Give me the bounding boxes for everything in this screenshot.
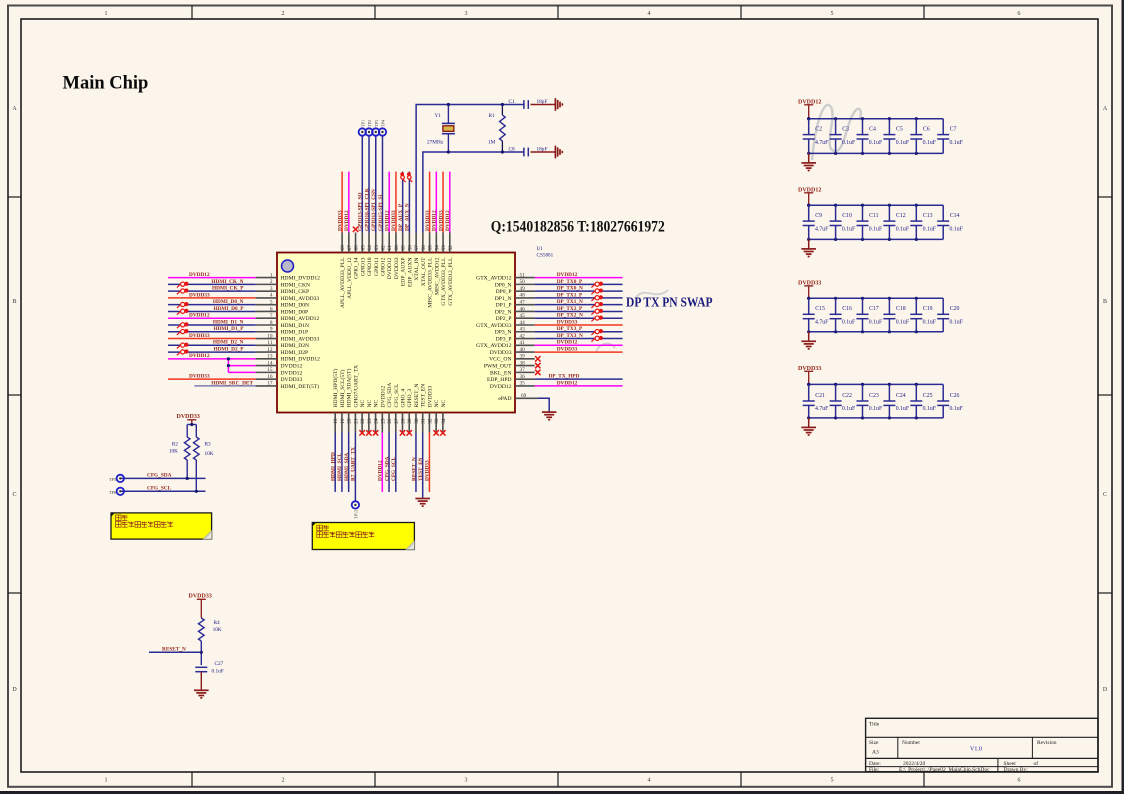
svg-text:HDMI_SDA(5T): HDMI_SDA(5T) xyxy=(346,369,353,408)
svg-text:A: A xyxy=(1103,106,1108,112)
ground C8 xyxy=(552,146,562,159)
svg-text:48: 48 xyxy=(520,293,526,299)
svg-text:R7_UART_TX: R7_UART_TX xyxy=(351,447,357,481)
svg-text:58: 58 xyxy=(407,245,413,251)
svg-text:MISC_AVDD12: MISC_AVDD12 xyxy=(434,257,440,295)
svg-text:DP TX PN SWAP: DP TX PN SWAP xyxy=(626,296,713,311)
svg-text:HDMI_D0P: HDMI_D0P xyxy=(281,309,309,315)
capacitor C3 xyxy=(830,119,856,154)
capacitor C10 xyxy=(830,205,856,239)
svg-text:31: 31 xyxy=(421,418,427,424)
svg-text:40: 40 xyxy=(520,347,526,353)
pin 62 GPIO12 xyxy=(380,233,386,277)
svg-text:HDMI_D1_P: HDMI_D1_P xyxy=(213,326,244,332)
svg-text:DVDD33: DVDD33 xyxy=(394,257,400,279)
svg-text:9: 9 xyxy=(270,327,273,333)
op-chip U1 CS5801 body xyxy=(277,253,515,413)
svg-text:17: 17 xyxy=(267,381,273,387)
no-connect pin 29 xyxy=(407,430,412,435)
diff pair marker xyxy=(177,289,188,295)
svg-text:C7: C7 xyxy=(950,126,957,132)
wire HDMI_D0_N xyxy=(168,299,256,305)
svg-text:RESET_N: RESET_N xyxy=(414,384,420,408)
svg-text:APLL_VDDU_12: APLL_VDDU_12 xyxy=(347,257,353,299)
svg-text:C21: C21 xyxy=(815,393,825,399)
svg-text:6: 6 xyxy=(1018,11,1021,17)
svg-text:R1: R1 xyxy=(489,113,496,119)
svg-text:EDP_HPD: EDP_HPD xyxy=(487,377,512,383)
svg-text:GPIO10: GPIO10 xyxy=(367,257,373,276)
svg-text:0.1uF: 0.1uF xyxy=(896,320,910,326)
wire CFG_SCL xyxy=(120,486,205,493)
svg-text:0.1uF: 0.1uF xyxy=(869,226,883,232)
svg-text:52: 52 xyxy=(448,245,454,251)
node XTAL_IN top xyxy=(447,103,450,106)
capacitor C24 xyxy=(883,384,909,418)
svg-text:26: 26 xyxy=(387,418,393,424)
wire DVDD33 cap bank rails xyxy=(807,383,943,420)
svg-text:DP_TX3_N: DP_TX3_N xyxy=(557,333,583,339)
capacitor C27 xyxy=(195,661,223,675)
svg-text:1: 1 xyxy=(105,778,108,784)
node XTAL_OUT bottom xyxy=(447,150,450,153)
power port DVDD12 cap bank xyxy=(798,188,821,206)
capacitor C16 xyxy=(830,298,856,332)
watermark swirl small xyxy=(636,290,668,297)
svg-text:C15: C15 xyxy=(815,306,825,312)
svg-text:57: 57 xyxy=(414,245,420,251)
svg-text:GPIO15-SPI_SI: GPIO15-SPI_SI xyxy=(378,195,384,232)
svg-text:55: 55 xyxy=(428,245,434,251)
svg-text:HDMI_AVDD33: HDMI_AVDD33 xyxy=(281,296,320,302)
svg-text:C19: C19 xyxy=(923,306,933,312)
capacitor C12 xyxy=(883,205,909,239)
svg-text:43: 43 xyxy=(520,327,526,333)
svg-text:DP_TX3_P: DP_TX3_P xyxy=(557,326,583,332)
svg-text:Title: Title xyxy=(869,722,880,728)
diff pair marker xyxy=(177,309,188,315)
svg-text:HDMI_CKP: HDMI_CKP xyxy=(281,289,310,295)
capacitor C26 xyxy=(937,384,963,418)
svg-text:D: D xyxy=(1103,687,1108,693)
svg-text:24: 24 xyxy=(374,418,380,424)
pin 3 HDMI_CKP xyxy=(256,286,310,295)
svg-text:4.7uF: 4.7uF xyxy=(815,140,829,146)
wire XTAL_OUT xyxy=(423,152,524,233)
svg-text:DVDD33: DVDD33 xyxy=(557,319,578,325)
svg-text:DVDD33: DVDD33 xyxy=(189,594,212,600)
svg-text:DP_AUX_P: DP_AUX_P xyxy=(398,203,404,231)
pin 28 GPIO_4 xyxy=(401,389,407,433)
svg-text:CFG_SCL: CFG_SCL xyxy=(391,456,397,481)
svg-text:GPIO12: GPIO12 xyxy=(380,257,386,276)
pin 64 GPIO10 xyxy=(367,233,373,277)
no-connect pin 22 xyxy=(359,430,364,435)
diff pair marker xyxy=(591,309,602,315)
svg-text:TP4: TP4 xyxy=(380,119,385,127)
svg-text:RESET_N: RESET_N xyxy=(162,647,186,653)
svg-text:0.1uF: 0.1uF xyxy=(950,406,964,412)
svg-text:20: 20 xyxy=(347,418,353,424)
svg-text:DVDD12: DVDD12 xyxy=(432,210,438,231)
svg-text:33: 33 xyxy=(434,418,440,424)
svg-text:15: 15 xyxy=(267,367,273,373)
wire DVDD12 pin 25 xyxy=(378,433,384,492)
pin 67 APLL_VDDU_12 xyxy=(347,233,353,299)
pin 57 XTAL_IN xyxy=(414,233,420,281)
svg-text:XTAL_OUT: XTAL_OUT xyxy=(421,257,427,286)
capacitor C5 xyxy=(883,119,909,154)
svg-text:45: 45 xyxy=(520,313,526,319)
svg-text:RESET_N: RESET_N xyxy=(411,457,417,481)
pin 45 DP2_P xyxy=(496,313,535,322)
wire pullup top tie xyxy=(187,423,196,437)
svg-text:30: 30 xyxy=(414,418,420,424)
svg-text:R3: R3 xyxy=(205,442,212,448)
wire R4 to node xyxy=(200,641,202,665)
test point TP15 xyxy=(352,501,359,519)
capacitor C6 xyxy=(910,119,936,154)
svg-text:C1: C1 xyxy=(509,99,516,105)
svg-text:DVDD33: DVDD33 xyxy=(177,414,200,420)
pin 56 XTAL_OUT xyxy=(421,233,427,287)
svg-text:C11: C11 xyxy=(869,213,879,219)
svg-text:Size: Size xyxy=(869,740,879,746)
svg-text:10: 10 xyxy=(267,333,273,339)
pin 6 HDMI_D0P xyxy=(256,306,309,315)
wire HDMI_CK_P xyxy=(168,286,256,292)
svg-text:R4: R4 xyxy=(214,620,221,626)
svg-text:21: 21 xyxy=(353,418,359,424)
svg-text:GTX_AVDD33_PLL: GTX_AVDD33_PLL xyxy=(441,257,447,306)
capacitor C4 xyxy=(857,119,883,154)
svg-text:HDMI_CKN: HDMI_CKN xyxy=(281,282,311,288)
wire RESET_N pin 30 xyxy=(411,433,417,492)
svg-text:62: 62 xyxy=(380,245,386,251)
resistor R1 xyxy=(488,105,505,153)
pin 36 EDP_HPD xyxy=(487,374,535,383)
svg-text:APLL_AVDD33_PLL: APLL_AVDD33_PLL xyxy=(340,257,346,308)
pin 42 DP3_P xyxy=(496,333,535,342)
svg-text:C16: C16 xyxy=(842,306,852,312)
svg-text:7: 7 xyxy=(270,313,273,319)
pin 11 HDMI_D2N xyxy=(256,340,309,349)
svg-text:DVDD12: DVDD12 xyxy=(378,460,384,481)
test point TP5 xyxy=(109,475,124,482)
no-connect pin 38 xyxy=(535,363,540,368)
wire DVDD33 pin 44 xyxy=(535,319,623,325)
wire DVDD12 cap bank rails xyxy=(807,117,943,155)
svg-text:39: 39 xyxy=(520,354,526,360)
svg-text:DP_TX0_N: DP_TX0_N xyxy=(557,286,583,292)
svg-text:HDMI_SDA: HDMI_SDA xyxy=(344,453,350,481)
svg-text:DVDD12: DVDD12 xyxy=(189,272,210,278)
svg-text:3: 3 xyxy=(270,286,273,292)
wire CFG_SDA pin 26 xyxy=(384,433,390,492)
svg-text:DVDD33: DVDD33 xyxy=(427,386,433,408)
svg-text:63: 63 xyxy=(374,245,380,251)
svg-text:27: 27 xyxy=(394,418,400,424)
diff pair marker xyxy=(177,302,188,308)
svg-text:51: 51 xyxy=(520,272,526,278)
pin 4 HDMI_AVDD33 xyxy=(256,293,320,302)
svg-text:67: 67 xyxy=(347,245,353,251)
wire DVDD12 pin 52 xyxy=(445,172,451,233)
svg-text:59: 59 xyxy=(401,245,407,251)
pin 15 DVDD12 xyxy=(256,367,303,376)
pin 48 DP1_N xyxy=(495,293,535,302)
svg-text:35: 35 xyxy=(520,381,526,387)
svg-text:C14: C14 xyxy=(950,213,960,219)
wire TEST_EN xyxy=(418,433,424,499)
svg-text:16: 16 xyxy=(267,374,273,380)
svg-text:64: 64 xyxy=(367,245,373,251)
pin 35 DVDD12 xyxy=(490,381,535,390)
svg-text:HDMI_D1P: HDMI_D1P xyxy=(281,330,309,336)
wire HDMI_D0_P xyxy=(168,306,256,312)
wire DP_TX1_N pin 47 xyxy=(535,299,623,305)
svg-text:DP_TX0_P: DP_TX0_P xyxy=(557,279,583,285)
wire DP_TX2_P pin 46 xyxy=(535,306,623,312)
ground cap bank xyxy=(801,341,816,349)
svg-text:Sheet: Sheet xyxy=(1004,761,1017,767)
pin 47 DP1_P xyxy=(496,299,535,308)
screen edge bottom xyxy=(0,791,1124,794)
wire HDMI_SRC_DET xyxy=(194,380,255,386)
capacitor C17 xyxy=(857,298,883,332)
wire DVDD33 cap bank rails xyxy=(807,297,943,334)
svg-text:NC: NC xyxy=(441,399,447,407)
pin 31 TEST_EN xyxy=(421,384,427,433)
svg-text:DVDD12: DVDD12 xyxy=(380,386,386,408)
svg-text:DVDD12: DVDD12 xyxy=(387,257,393,279)
svg-text:HDMI_D2_P: HDMI_D2_P xyxy=(213,346,244,352)
wire ground stem bank DVDD12 xyxy=(808,239,810,248)
wire DP_AUX_N xyxy=(405,172,411,233)
svg-text:A: A xyxy=(12,106,17,112)
svg-text:DVDD33: DVDD33 xyxy=(391,210,397,231)
svg-text:C26: C26 xyxy=(950,393,960,399)
svg-text:2: 2 xyxy=(282,11,285,17)
svg-text:GPIO11-SPI_CSN: GPIO11-SPI_CSN xyxy=(371,189,377,231)
svg-text:0.1uF: 0.1uF xyxy=(212,669,224,675)
wire DVDD12 pin 61 xyxy=(385,172,391,233)
wire HDMI_SCL pin 19 xyxy=(337,433,343,492)
wire DVDD33 pin 53 xyxy=(438,172,444,233)
wire HDMI_D2_P xyxy=(168,346,256,352)
svg-text:C22: C22 xyxy=(842,393,852,399)
svg-text:V1.0: V1.0 xyxy=(970,747,982,753)
svg-text:0.1uF: 0.1uF xyxy=(950,226,964,232)
svg-text:PWM_OUT: PWM_OUT xyxy=(484,364,512,370)
svg-text:4: 4 xyxy=(270,293,273,299)
svg-text:42: 42 xyxy=(520,333,526,339)
wire HDMI_SDA pin 20 xyxy=(344,433,350,492)
wire DVDD12 pin 41 xyxy=(535,340,623,346)
svg-text:DVDD33: DVDD33 xyxy=(189,374,210,380)
svg-text:49: 49 xyxy=(520,286,526,292)
svg-text:C25: C25 xyxy=(923,393,933,399)
svg-text:4.7uF: 4.7uF xyxy=(815,406,829,412)
svg-text:Date:: Date: xyxy=(869,761,881,767)
pin 54 MISC_AVDD12 xyxy=(434,233,440,296)
svg-text:4.7uF: 4.7uF xyxy=(815,320,829,326)
svg-text:18pF: 18pF xyxy=(537,99,548,105)
svg-text:Q:1540182856 T:18027661972: Q:1540182856 T:18027661972 xyxy=(491,219,665,236)
pin 22 NC xyxy=(360,399,366,432)
pin 13 HDMI_DVDD12 xyxy=(256,354,321,363)
ground cap bank xyxy=(801,427,816,435)
wire DVDD33 pin 55 xyxy=(425,172,431,233)
svg-text:0.1uF: 0.1uF xyxy=(923,226,937,232)
wire XTAL_IN xyxy=(416,105,524,233)
power port DVDD33 (R2/R3) xyxy=(177,414,200,425)
svg-text:C23: C23 xyxy=(869,393,879,399)
svg-text:4: 4 xyxy=(648,778,651,784)
svg-text:DVDD12: DVDD12 xyxy=(189,313,210,319)
wire HDMI_D1_N xyxy=(168,319,256,325)
pin 53 GTX_AVDD33_PLL xyxy=(441,233,447,306)
wire C27 to ground xyxy=(200,672,202,690)
svg-text:0.1uF: 0.1uF xyxy=(842,226,856,232)
svg-text:GPIO_4: GPIO_4 xyxy=(401,389,407,408)
svg-text:DVDD33: DVDD33 xyxy=(189,292,210,298)
svg-text:DP2_N: DP2_N xyxy=(495,309,512,315)
svg-text:Number: Number xyxy=(902,740,920,746)
no-connect pin 37 xyxy=(535,370,540,375)
svg-text:of: of xyxy=(1034,760,1039,767)
svg-text:GPIO13: GPIO13 xyxy=(360,257,366,276)
svg-text:CS5801: CS5801 xyxy=(537,253,554,259)
svg-text:C10: C10 xyxy=(842,213,852,219)
svg-text:14: 14 xyxy=(267,360,273,366)
wire GPIO15-SPI_SI xyxy=(378,135,384,232)
pin 19 HDMI_SCL(5T) xyxy=(339,369,346,432)
pin 32 DVDD33 xyxy=(427,386,433,433)
svg-text:0.1uF: 0.1uF xyxy=(896,140,910,146)
wire DVDD33 pin 32 xyxy=(425,433,431,492)
svg-text:C3: C3 xyxy=(842,126,849,132)
no-connect pin 39 xyxy=(535,356,540,361)
wire GPIO10-SPI_CLK xyxy=(364,135,370,232)
svg-text:50: 50 xyxy=(520,279,526,285)
diff pair marker xyxy=(177,329,188,335)
svg-text:DVDD33: DVDD33 xyxy=(281,377,303,383)
wire R3 to CFG_SCL xyxy=(195,460,197,491)
svg-text:60: 60 xyxy=(394,245,400,251)
wire DVDD33 pin 68 xyxy=(337,172,343,233)
svg-text:HDMI_SCL: HDMI_SCL xyxy=(337,453,343,481)
svg-text:6: 6 xyxy=(1018,778,1021,784)
svg-text:C18: C18 xyxy=(896,306,906,312)
pin 58 EDP_AUXN xyxy=(407,233,413,288)
svg-text:DVDD33: DVDD33 xyxy=(425,460,431,481)
pin 65 GPIO13 xyxy=(360,233,366,277)
svg-text:GPIO10-SPI_CLK: GPIO10-SPI_CLK xyxy=(364,187,370,231)
pin 30 RESET_N xyxy=(414,384,420,433)
svg-text:HDMI_DET(5T): HDMI_DET(5T) xyxy=(281,383,320,390)
test point TP6 xyxy=(109,488,124,495)
svg-text:HDMI_CK_N: HDMI_CK_N xyxy=(211,279,243,285)
svg-text:DVDD33: DVDD33 xyxy=(438,210,444,231)
svg-text:47: 47 xyxy=(520,299,526,305)
svg-text:0.1uF: 0.1uF xyxy=(923,406,937,412)
ground ePAD xyxy=(542,412,557,420)
svg-text:DVDD12: DVDD12 xyxy=(557,380,578,386)
wire DVDD12 pin 51 xyxy=(535,272,623,278)
svg-text:8: 8 xyxy=(270,320,273,326)
node R1 top xyxy=(501,103,504,106)
diff pair marker xyxy=(408,173,413,182)
wire R7_UART_TX xyxy=(351,433,357,502)
svg-text:U1: U1 xyxy=(537,246,544,252)
pin 51 GTX_AVDD12 xyxy=(476,272,535,281)
svg-text:BKL_EN: BKL_EN xyxy=(490,370,511,376)
svg-text:66: 66 xyxy=(354,245,360,251)
test point TP3 xyxy=(372,120,379,136)
resistor R4 xyxy=(199,618,222,641)
wire HDMI_CK_N xyxy=(168,279,256,285)
pin 63 GPIO11 xyxy=(374,233,380,276)
title block xyxy=(866,718,1098,773)
capacitor C20 xyxy=(937,298,963,332)
svg-text:DVDD12: DVDD12 xyxy=(490,384,512,390)
svg-text:C2: C2 xyxy=(815,126,822,132)
wire DP_TX1_P pin 48 xyxy=(535,292,623,298)
svg-text:C13: C13 xyxy=(923,213,933,219)
svg-text:23: 23 xyxy=(367,418,373,424)
power port DVDD33 (R4) xyxy=(189,594,212,619)
svg-text:C12: C12 xyxy=(896,213,906,219)
svg-text:GTX_AVDD33: GTX_AVDD33 xyxy=(476,323,512,329)
pin 69 ePAD xyxy=(498,393,537,402)
svg-text:HDMI_SRC_DET: HDMI_SRC_DET xyxy=(211,380,253,386)
svg-text:0.1uF: 0.1uF xyxy=(869,320,883,326)
test point TP2 xyxy=(365,120,372,136)
diff pair marker xyxy=(591,329,602,335)
svg-text:CFG_SCL: CFG_SCL xyxy=(394,383,400,408)
svg-text:NC: NC xyxy=(374,399,380,407)
svg-text:MISC_AVDD33_PLL: MISC_AVDD33_PLL xyxy=(428,257,434,308)
capacitor C21 xyxy=(803,384,829,418)
capacitor C15 xyxy=(803,298,829,332)
wire DP_TX0_P pin 50 xyxy=(535,279,623,285)
test point TP4 xyxy=(379,119,386,136)
svg-text:ePAD: ePAD xyxy=(498,396,511,402)
svg-text:TP1: TP1 xyxy=(360,120,365,127)
power port DVDD33 cap bank xyxy=(798,281,821,299)
pin 43 DP3_N xyxy=(495,327,535,336)
pin 66 GPIO_14 xyxy=(354,233,360,279)
svg-text:TP15: TP15 xyxy=(353,510,358,519)
svg-text:DVDD33: DVDD33 xyxy=(490,350,512,356)
wire DP_TX3_N pin 42 xyxy=(535,333,623,339)
pin 16 DVDD33 xyxy=(256,374,303,383)
capacitor C23 xyxy=(857,384,883,418)
svg-text:2: 2 xyxy=(270,279,273,285)
pin 8 HDMI_D1N xyxy=(256,320,309,329)
node RESET_N junction xyxy=(200,651,203,654)
svg-text:NC: NC xyxy=(434,399,440,407)
pin 38 PWM_OUT xyxy=(484,360,535,369)
svg-text:GTX_AVDD12: GTX_AVDD12 xyxy=(476,276,512,282)
ground cap bank xyxy=(801,163,816,171)
power port DVDD33 cap bank xyxy=(798,366,821,384)
svg-text:69: 69 xyxy=(521,393,527,399)
svg-text:HDMI_AVDD33: HDMI_AVDD33 xyxy=(281,336,320,342)
pin 2 HDMI_CKN xyxy=(256,279,310,288)
diff pair marker xyxy=(177,282,188,288)
